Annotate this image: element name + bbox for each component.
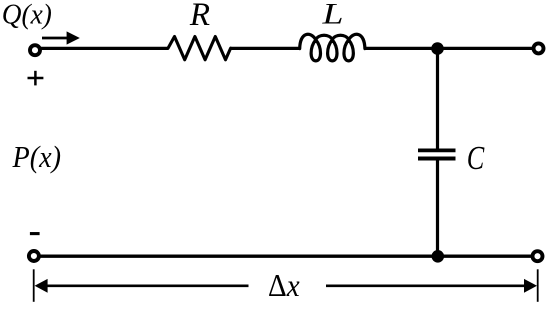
terminal bottom-left	[29, 251, 39, 261]
node junction bottom	[432, 250, 445, 263]
wire between resistor and inductor	[230, 47, 300, 50]
svg-text:R: R	[189, 0, 210, 33]
dimension tick right	[537, 269, 539, 302]
dimension tick left	[33, 269, 35, 302]
current arrow	[42, 31, 80, 44]
terminal bottom-right	[533, 251, 543, 261]
terminal top-right	[534, 43, 544, 53]
svg-text:C: C	[467, 140, 485, 177]
wire capacitor vertical bottom	[436, 159, 439, 257]
svg-text:Q(x): Q(x)	[2, 0, 52, 31]
svg-text:L: L	[321, 0, 343, 31]
node junction top	[431, 42, 444, 55]
wire inductor to right terminal	[365, 47, 535, 50]
svg-text:Δx: Δx	[268, 267, 300, 303]
svg-text:P(x): P(x)	[12, 139, 61, 174]
resistor R	[168, 37, 231, 60]
polarity minus	[30, 232, 40, 235]
wire bottom	[38, 255, 533, 258]
inductor L	[300, 34, 365, 61]
dimension arrow right	[326, 279, 537, 293]
terminal top-left	[30, 45, 40, 55]
polarity plus	[28, 71, 44, 86]
capacitor C	[418, 150, 456, 158]
wire top-left segment	[39, 47, 169, 50]
wire capacitor vertical top	[436, 47, 439, 150]
dimension arrow left	[35, 279, 249, 293]
